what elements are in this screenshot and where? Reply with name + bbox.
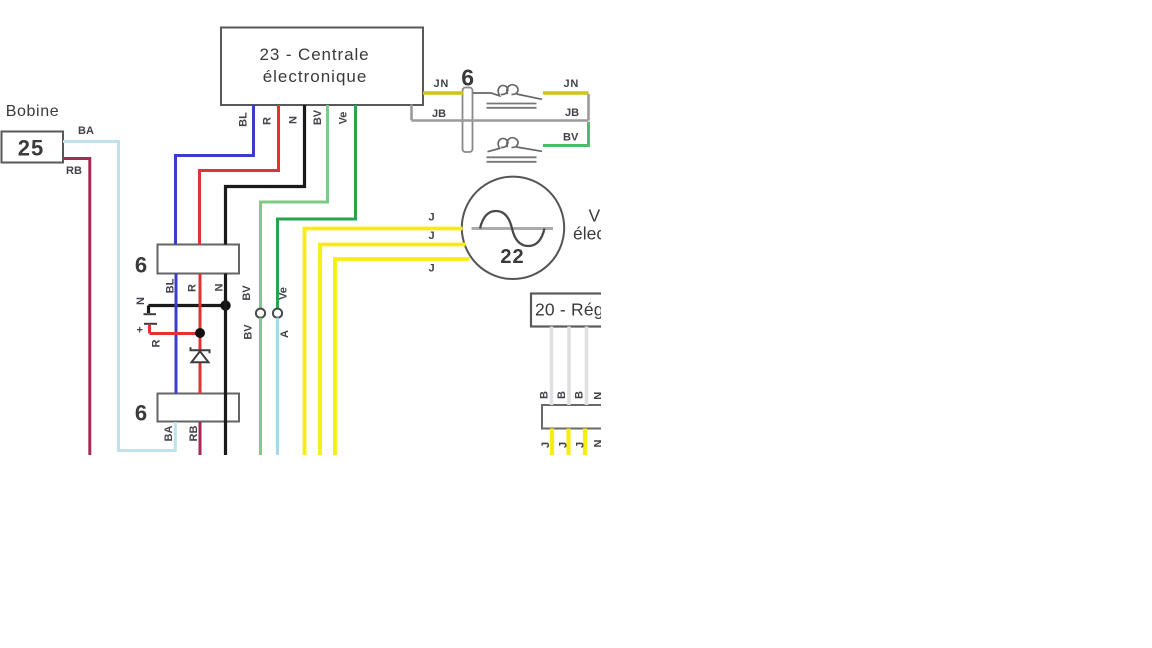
wire J1 (yellow, alternator to bottom) [305,229,463,457]
svg-text:22: 22 [500,246,524,268]
svg-text:N: N [214,283,226,291]
svg-text:élec: élec [573,224,605,244]
wire N lower segment (crosses lower connector) [224,274,227,457]
junction dot R [195,328,205,338]
diode D (zener) on red wire [191,347,210,362]
svg-text:J: J [540,442,552,448]
svg-text:JB: JB [432,108,446,120]
wire RB from coil 25 [63,159,90,457]
crop mask right [601,0,1152,648]
alternator 22 (volant magnétique) [462,177,564,279]
svg-text:J: J [428,212,434,224]
box 25 coil (Bobine) [2,132,64,163]
wire JN (olive yellow) left of pickup coil [423,91,463,94]
box 23 Centrale électronique [221,28,423,106]
wire BV green top right corner [543,122,589,146]
svg-text:6: 6 [135,401,147,426]
wires yellow below bottom connector [552,429,585,457]
svg-text:RB: RB [66,165,82,177]
svg-text:Ve: Ve [278,287,290,300]
wire BA (light blue, coil 25 to lower connector) [63,142,175,451]
svg-text:BV: BV [563,132,579,144]
svg-text:+: + [137,325,143,337]
wire JN right of coil [543,91,589,94]
svg-text:électronique: électronique [263,67,368,86]
core lines coil 2 [487,157,537,162]
pickup coil 2 [488,138,543,152]
svg-text:BL: BL [165,278,177,293]
wire R branch to + terminal [150,325,201,334]
wire gray corner JN-JB [587,94,590,121]
connector 6 lower [158,394,240,422]
wire A below terminal [276,318,279,456]
alternator phase line [472,227,554,230]
wire JB stub from box 23 [410,105,413,121]
crop mask bottom [0,455,1152,648]
wires gray regulator to connector [552,327,587,406]
svg-text:Ve: Ve [338,112,350,125]
wire J3 [335,259,470,456]
svg-text:BV: BV [312,109,324,125]
wire BL lower segment [175,274,178,394]
svg-text:J: J [428,263,434,275]
svg-text:RB: RB [188,426,200,442]
svg-text:A: A [279,330,291,338]
terminal circle BV [256,309,265,318]
wire BV below terminal [259,318,262,456]
svg-text:R: R [262,117,274,125]
svg-text:B: B [556,391,568,399]
wire Ve (green, box 23 to terminal circle) [278,105,356,309]
svg-text:6: 6 [461,65,474,91]
svg-text:BL: BL [238,112,250,127]
terminal N bar [144,313,157,315]
svg-text:BV: BV [241,285,253,301]
svg-text:BV: BV [243,324,255,340]
svg-text:J: J [575,442,587,448]
wire BV (light green, box 23 to terminal circle) [261,105,328,309]
wire R lower segment [199,274,202,394]
connector 6 upper [158,245,240,274]
svg-text:6: 6 [135,253,147,278]
wire JB horizontal [412,119,589,122]
svg-text:BA: BA [163,426,175,442]
svg-text:R: R [186,284,198,292]
svg-text:Bobine: Bobine [6,103,59,120]
svg-text:N: N [135,297,147,305]
terminal circle Ve/A [273,309,282,318]
svg-text:BA: BA [78,125,94,137]
svg-text:J: J [428,230,434,242]
box 20 Régulateur [531,294,616,327]
svg-text:N: N [288,116,300,124]
pickup coil 1 [473,85,542,100]
svg-text:V: V [589,206,601,226]
wire BL (blue, box 23 to upper connector) [176,105,254,245]
alternator sine wave [480,211,545,246]
terminal + bar [144,323,157,325]
svg-text:B: B [573,391,585,399]
wire R (red, box 23 to upper connector) [200,105,279,245]
wire J2 [320,245,466,457]
svg-text:JN: JN [564,78,580,90]
svg-text:23 - Centrale: 23 - Centrale [260,45,370,64]
svg-text:B: B [538,391,550,399]
wire N (black, box 23 to upper connector) [226,105,305,245]
svg-text:25: 25 [18,136,44,161]
wire RB below lower connector [199,422,202,456]
connector bottom right [542,405,617,429]
wire N branch to terminal [149,306,226,314]
core lines coil 1 [487,104,537,108]
junction dot N [220,300,230,310]
svg-text:JB: JB [565,107,579,119]
svg-text:J: J [557,442,569,448]
svg-text:R: R [151,339,163,347]
connector bar 6 top right [463,88,473,153]
svg-text:JN: JN [434,78,450,90]
